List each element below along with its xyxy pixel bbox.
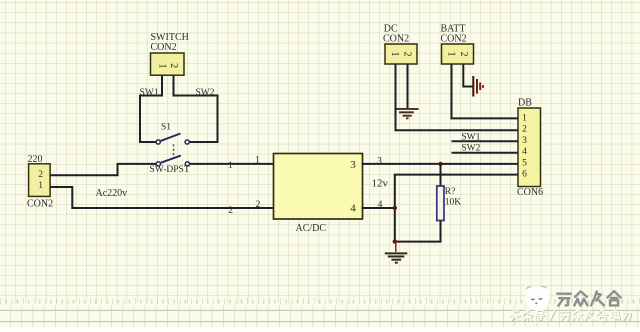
wire SW2 to DB pin4 — [452, 152, 519, 154]
svg-text:2: 2 — [38, 170, 43, 180]
svg-text:2: 2 — [522, 125, 527, 135]
wire DC pin2 down — [407, 65, 409, 109]
ground GND1 earth — [385, 242, 408, 263]
svg-text:3: 3 — [350, 159, 356, 171]
connector J1 SWITCH CON2 — [151, 32, 189, 75]
bottom band grid — [0, 310, 640, 321]
svg-text:3: 3 — [377, 156, 382, 166]
svg-text:2: 2 — [168, 63, 179, 68]
svg-text:1: 1 — [522, 114, 527, 124]
ground GND2 earth — [397, 109, 419, 118]
wire 12v riser — [394, 175, 396, 242]
wire junction to resistor — [440, 164, 442, 187]
svg-text:2: 2 — [458, 52, 469, 57]
junction dot pin3 net — [438, 162, 442, 166]
wire AC/DC pin4 stub — [362, 207, 396, 209]
wire SW1 to DB pin3 — [452, 140, 519, 142]
svg-text:AC/DC: AC/DC — [296, 223, 327, 234]
wire DC pin1 to DB pin2 — [396, 65, 519, 131]
watermark logo — [525, 286, 549, 311]
wire switch to AC/DC pin1 — [189, 163, 274, 165]
svg-text:1: 1 — [157, 64, 168, 69]
svg-text:4: 4 — [378, 200, 383, 210]
connector J2 220 CON2 — [27, 154, 53, 210]
wire SW1 riser — [139, 95, 141, 143]
svg-text:CON2: CON2 — [27, 199, 53, 210]
svg-text:CON6: CON6 — [517, 187, 543, 198]
wire SWITCH pin2 down — [174, 76, 218, 96]
regulator U1 AC/DC — [274, 154, 363, 235]
wire top pole right — [189, 141, 218, 143]
svg-text:5: 5 — [522, 158, 527, 168]
svg-text:DB: DB — [518, 98, 532, 109]
svg-text:1: 1 — [228, 161, 233, 171]
junction dot ground — [393, 239, 397, 243]
svg-text:1: 1 — [389, 52, 400, 57]
svg-text:6: 6 — [522, 169, 527, 179]
connector J4 BATT CON2 — [441, 24, 474, 64]
wire 220 pin2 to switch — [50, 164, 156, 175]
watermark title — [557, 291, 620, 305]
wire AC/DC pin3 to DB pin5 — [362, 163, 519, 165]
svg-text:1: 1 — [255, 155, 260, 165]
junction dot pin4 — [393, 206, 397, 210]
svg-text:CON2: CON2 — [151, 42, 177, 53]
svg-text:CON2: CON2 — [383, 34, 409, 45]
svg-text:12v: 12v — [372, 177, 389, 189]
wire top pole left — [139, 141, 156, 143]
wire SWITCH pin1 down — [140, 76, 162, 96]
wire SW2 riser — [217, 95, 219, 143]
wire BATT pin1 to DB pin1 — [452, 65, 519, 119]
wire BATT pin2 to ground — [463, 65, 472, 87]
connector J3 DC CON2 — [383, 24, 417, 64]
svg-text:10K: 10K — [445, 198, 462, 208]
svg-text:SW-DPST: SW-DPST — [150, 165, 190, 175]
svg-text:1: 1 — [38, 181, 43, 191]
svg-text:4: 4 — [350, 203, 356, 215]
svg-text:S1: S1 — [161, 123, 171, 133]
switch S1 SW-DPST — [150, 123, 190, 175]
resistor R? 10K — [437, 186, 462, 221]
svg-text:2: 2 — [401, 52, 412, 57]
svg-text:2: 2 — [228, 206, 233, 216]
connector J5 DB CON6 — [517, 98, 543, 199]
svg-text:R?: R? — [445, 187, 456, 197]
svg-text:SW1: SW1 — [140, 88, 159, 98]
watermark subtitle — [510, 310, 631, 321]
svg-text:2: 2 — [256, 200, 261, 210]
svg-text:Ac220v: Ac220v — [96, 188, 128, 199]
svg-text:4: 4 — [522, 147, 527, 157]
wire 12v to DB pin6 — [394, 174, 519, 176]
ground GND3 power — [473, 76, 483, 97]
svg-text:3: 3 — [522, 136, 527, 146]
svg-text:CON2: CON2 — [441, 34, 467, 45]
svg-text:SW2: SW2 — [196, 88, 215, 98]
wire 220 pin1 to AC/DC pin2 — [50, 187, 274, 208]
svg-text:1: 1 — [445, 52, 456, 57]
wire resistor bottom — [395, 221, 441, 242]
